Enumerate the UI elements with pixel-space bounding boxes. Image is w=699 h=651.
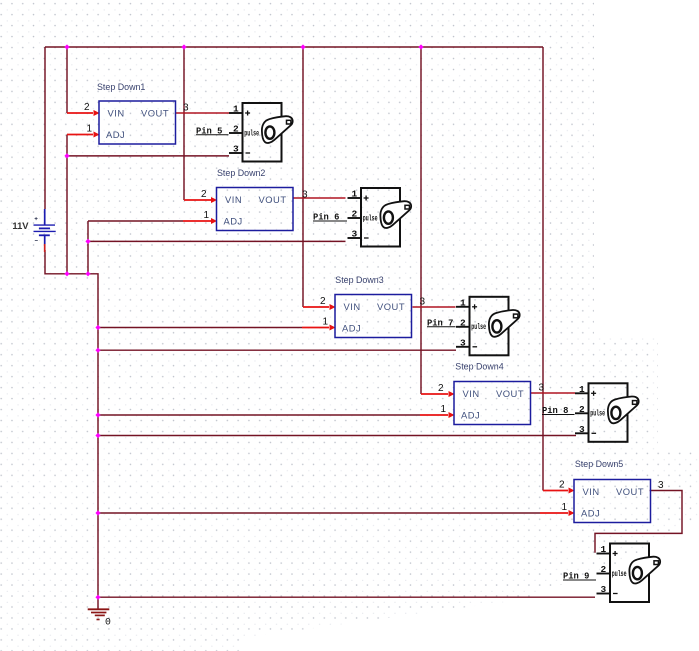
svg-text:1: 1 (441, 404, 447, 415)
svg-text:Step Down3: Step Down3 (335, 275, 383, 285)
svg-text:1: 1 (87, 124, 93, 135)
svg-text:0: 0 (105, 616, 111, 627)
svg-text:Step Down1: Step Down1 (97, 82, 145, 92)
svg-text:2: 2 (559, 480, 565, 491)
svg-text:11V: 11V (12, 220, 29, 231)
svg-text:Step Down4: Step Down4 (455, 362, 503, 372)
svg-text:2: 2 (438, 383, 444, 394)
svg-text:2: 2 (320, 296, 326, 307)
svg-text:Step Down5: Step Down5 (575, 459, 623, 469)
svg-text:3: 3 (420, 297, 426, 308)
svg-text:3: 3 (658, 480, 664, 491)
svg-text:Step Down2: Step Down2 (217, 168, 265, 178)
svg-text:2: 2 (201, 189, 207, 200)
svg-text:3: 3 (539, 383, 545, 394)
svg-text:3: 3 (183, 103, 189, 114)
svg-text:2: 2 (84, 102, 90, 113)
svg-text:1: 1 (204, 210, 210, 221)
svg-text:1: 1 (562, 502, 568, 513)
svg-text:1: 1 (323, 317, 329, 328)
svg-text:3: 3 (302, 190, 308, 201)
